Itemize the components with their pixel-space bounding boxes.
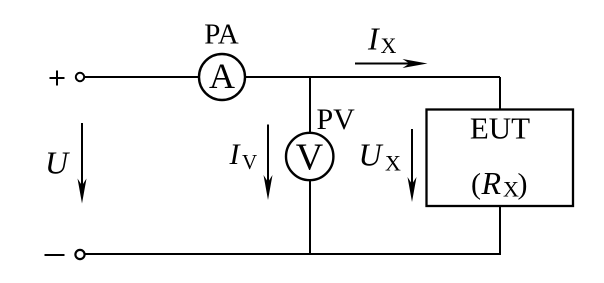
- svg-text:R: R: [481, 165, 502, 201]
- svg-text:PA: PA: [204, 19, 238, 51]
- svg-text:A: A: [209, 56, 235, 96]
- svg-text:U: U: [45, 145, 70, 181]
- svg-text:V: V: [242, 150, 257, 174]
- svg-text:(: (: [471, 168, 481, 201]
- svg-text:EUT: EUT: [470, 111, 530, 146]
- svg-text:X: X: [385, 151, 401, 176]
- svg-text:U: U: [359, 137, 384, 173]
- svg-text:PV: PV: [317, 103, 356, 136]
- svg-text:V: V: [296, 137, 324, 179]
- svg-text:): ): [518, 168, 528, 201]
- svg-text:I: I: [367, 21, 380, 57]
- svg-text:X: X: [381, 33, 397, 58]
